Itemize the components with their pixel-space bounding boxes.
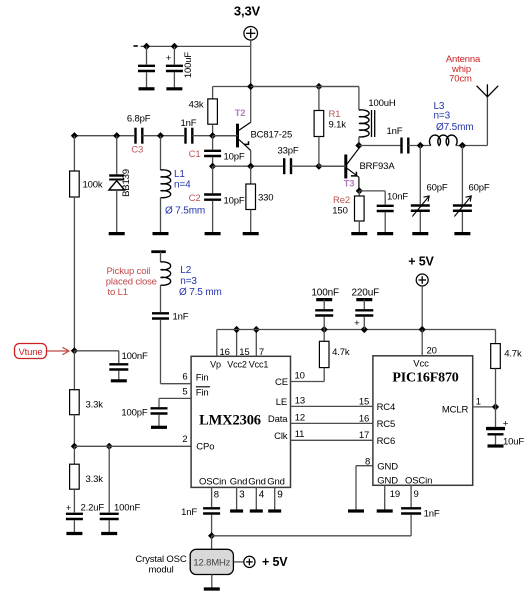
svg-text:13: 13	[295, 395, 305, 406]
svg-text:100nF: 100nF	[311, 288, 339, 299]
svg-text:+ 5V: + 5V	[408, 255, 434, 269]
svg-text:RC5: RC5	[377, 419, 396, 430]
svg-text:12: 12	[295, 412, 305, 423]
svg-text:60pF: 60pF	[427, 183, 448, 194]
svg-text:4: 4	[259, 490, 265, 501]
svg-text:Re2: Re2	[333, 195, 350, 206]
svg-text:LMX2306: LMX2306	[199, 413, 261, 429]
svg-text:12.8MHz: 12.8MHz	[193, 558, 230, 569]
svg-text:11: 11	[295, 429, 305, 440]
svg-text:100uF: 100uF	[183, 52, 194, 79]
svg-text:Ø 7.5 mm: Ø 7.5 mm	[179, 287, 222, 298]
svg-text:9.1k: 9.1k	[329, 120, 347, 131]
svg-text:70cm: 70cm	[449, 73, 472, 84]
svg-text:+: +	[503, 419, 509, 430]
svg-text:BRF93A: BRF93A	[360, 161, 396, 172]
svg-text:Clk: Clk	[274, 431, 288, 442]
svg-text:7: 7	[259, 347, 264, 358]
svg-text:Crystal OSC: Crystal OSC	[135, 554, 186, 565]
svg-text:15: 15	[239, 347, 249, 358]
svg-text:100k: 100k	[83, 180, 103, 191]
svg-text:16: 16	[359, 413, 369, 424]
svg-text:10: 10	[295, 371, 305, 382]
svg-text:OSCin: OSCin	[405, 476, 432, 487]
svg-text:modul: modul	[148, 565, 173, 576]
svg-text:10nF: 10nF	[387, 192, 408, 203]
svg-text:1nF: 1nF	[387, 126, 403, 137]
svg-text:Ø 7.5mm: Ø 7.5mm	[165, 206, 205, 217]
svg-text:Data: Data	[268, 414, 288, 425]
svg-text:C2: C2	[189, 193, 201, 204]
svg-text:Vtune: Vtune	[18, 347, 42, 358]
svg-text:Vp: Vp	[210, 360, 221, 370]
svg-text:9: 9	[277, 490, 283, 501]
svg-text:33pF: 33pF	[277, 146, 298, 157]
svg-text:GND: GND	[377, 461, 398, 472]
svg-text:Fin: Fin	[196, 373, 209, 384]
svg-text:1: 1	[476, 397, 481, 408]
svg-text:4.7k: 4.7k	[504, 349, 522, 360]
svg-text:MCLR: MCLR	[442, 405, 469, 416]
svg-text:Ø7.5mm: Ø7.5mm	[436, 122, 473, 133]
svg-text:BC817-25: BC817-25	[251, 130, 293, 141]
svg-text:43k: 43k	[189, 100, 204, 111]
svg-text:10uF: 10uF	[503, 437, 524, 448]
svg-text:3: 3	[239, 490, 245, 501]
svg-text:8: 8	[214, 490, 219, 501]
svg-text:1nF: 1nF	[181, 118, 197, 129]
svg-text:+ 5V: + 5V	[262, 555, 288, 569]
svg-text:20: 20	[427, 346, 437, 357]
svg-text:n=3: n=3	[434, 111, 451, 122]
svg-text:LE: LE	[276, 397, 287, 408]
svg-text:Pickup coil: Pickup coil	[107, 266, 151, 277]
svg-text:5: 5	[182, 387, 187, 398]
svg-text:16: 16	[220, 347, 230, 358]
svg-text:330: 330	[258, 193, 273, 204]
svg-text:3,3V: 3,3V	[234, 4, 261, 19]
svg-text:220uF: 220uF	[351, 288, 379, 299]
svg-text:60pF: 60pF	[469, 183, 490, 194]
svg-text:RC6: RC6	[377, 436, 396, 447]
svg-text:RC4: RC4	[377, 402, 396, 413]
svg-text:GND: GND	[377, 476, 398, 487]
svg-text:to L1: to L1	[108, 287, 128, 298]
svg-text:10pF: 10pF	[224, 152, 245, 163]
svg-text:T2: T2	[235, 108, 246, 119]
svg-text:+: +	[166, 53, 172, 64]
svg-text:+: +	[66, 503, 71, 513]
svg-text:C1: C1	[189, 149, 201, 160]
svg-text:100pF: 100pF	[121, 408, 148, 419]
svg-text:C3: C3	[131, 144, 143, 155]
svg-text:CPo: CPo	[196, 442, 214, 453]
svg-text:BB139: BB139	[121, 169, 132, 197]
svg-text:2.2uF: 2.2uF	[81, 503, 105, 514]
svg-text:CE: CE	[275, 377, 288, 388]
svg-text:OSCin: OSCin	[199, 477, 226, 488]
svg-text:3.3k: 3.3k	[86, 474, 104, 485]
svg-text:n=3: n=3	[180, 276, 197, 287]
svg-text:100nF: 100nF	[122, 351, 149, 362]
svg-text:R1: R1	[329, 109, 341, 120]
svg-text:1nF: 1nF	[181, 507, 197, 518]
svg-text:placed close: placed close	[106, 277, 157, 288]
svg-text:Vcc2: Vcc2	[227, 360, 247, 370]
svg-text:Vcc: Vcc	[413, 359, 429, 370]
svg-text:9: 9	[414, 489, 419, 500]
svg-text:100nF: 100nF	[114, 503, 141, 514]
svg-text:10pF: 10pF	[224, 196, 245, 207]
svg-text:PIC16F870: PIC16F870	[392, 371, 458, 386]
svg-text:150: 150	[332, 206, 347, 217]
svg-text:1nF: 1nF	[173, 312, 189, 323]
svg-text:L1: L1	[174, 169, 185, 180]
svg-text:T3: T3	[344, 179, 355, 190]
svg-text:19: 19	[390, 489, 400, 500]
svg-text:6.8pF: 6.8pF	[127, 114, 151, 125]
svg-text:15: 15	[359, 396, 369, 407]
svg-text:Fin: Fin	[196, 387, 209, 398]
svg-text:8: 8	[365, 457, 370, 468]
svg-text:n=4: n=4	[174, 180, 191, 191]
svg-text:4.7k: 4.7k	[332, 347, 350, 358]
svg-text:100uH: 100uH	[368, 98, 396, 109]
svg-text:1nF: 1nF	[424, 509, 440, 520]
svg-text:Gnd: Gnd	[248, 477, 266, 488]
svg-text:17: 17	[359, 430, 369, 441]
svg-text:6: 6	[182, 372, 187, 383]
svg-text:Gnd: Gnd	[267, 477, 285, 488]
svg-text:Vcc1: Vcc1	[249, 360, 269, 370]
svg-text:2: 2	[182, 434, 187, 445]
svg-text:3.3k: 3.3k	[86, 400, 104, 411]
svg-text:+: +	[354, 318, 360, 329]
svg-text:Gnd: Gnd	[230, 477, 248, 488]
svg-text:L2: L2	[180, 265, 191, 276]
